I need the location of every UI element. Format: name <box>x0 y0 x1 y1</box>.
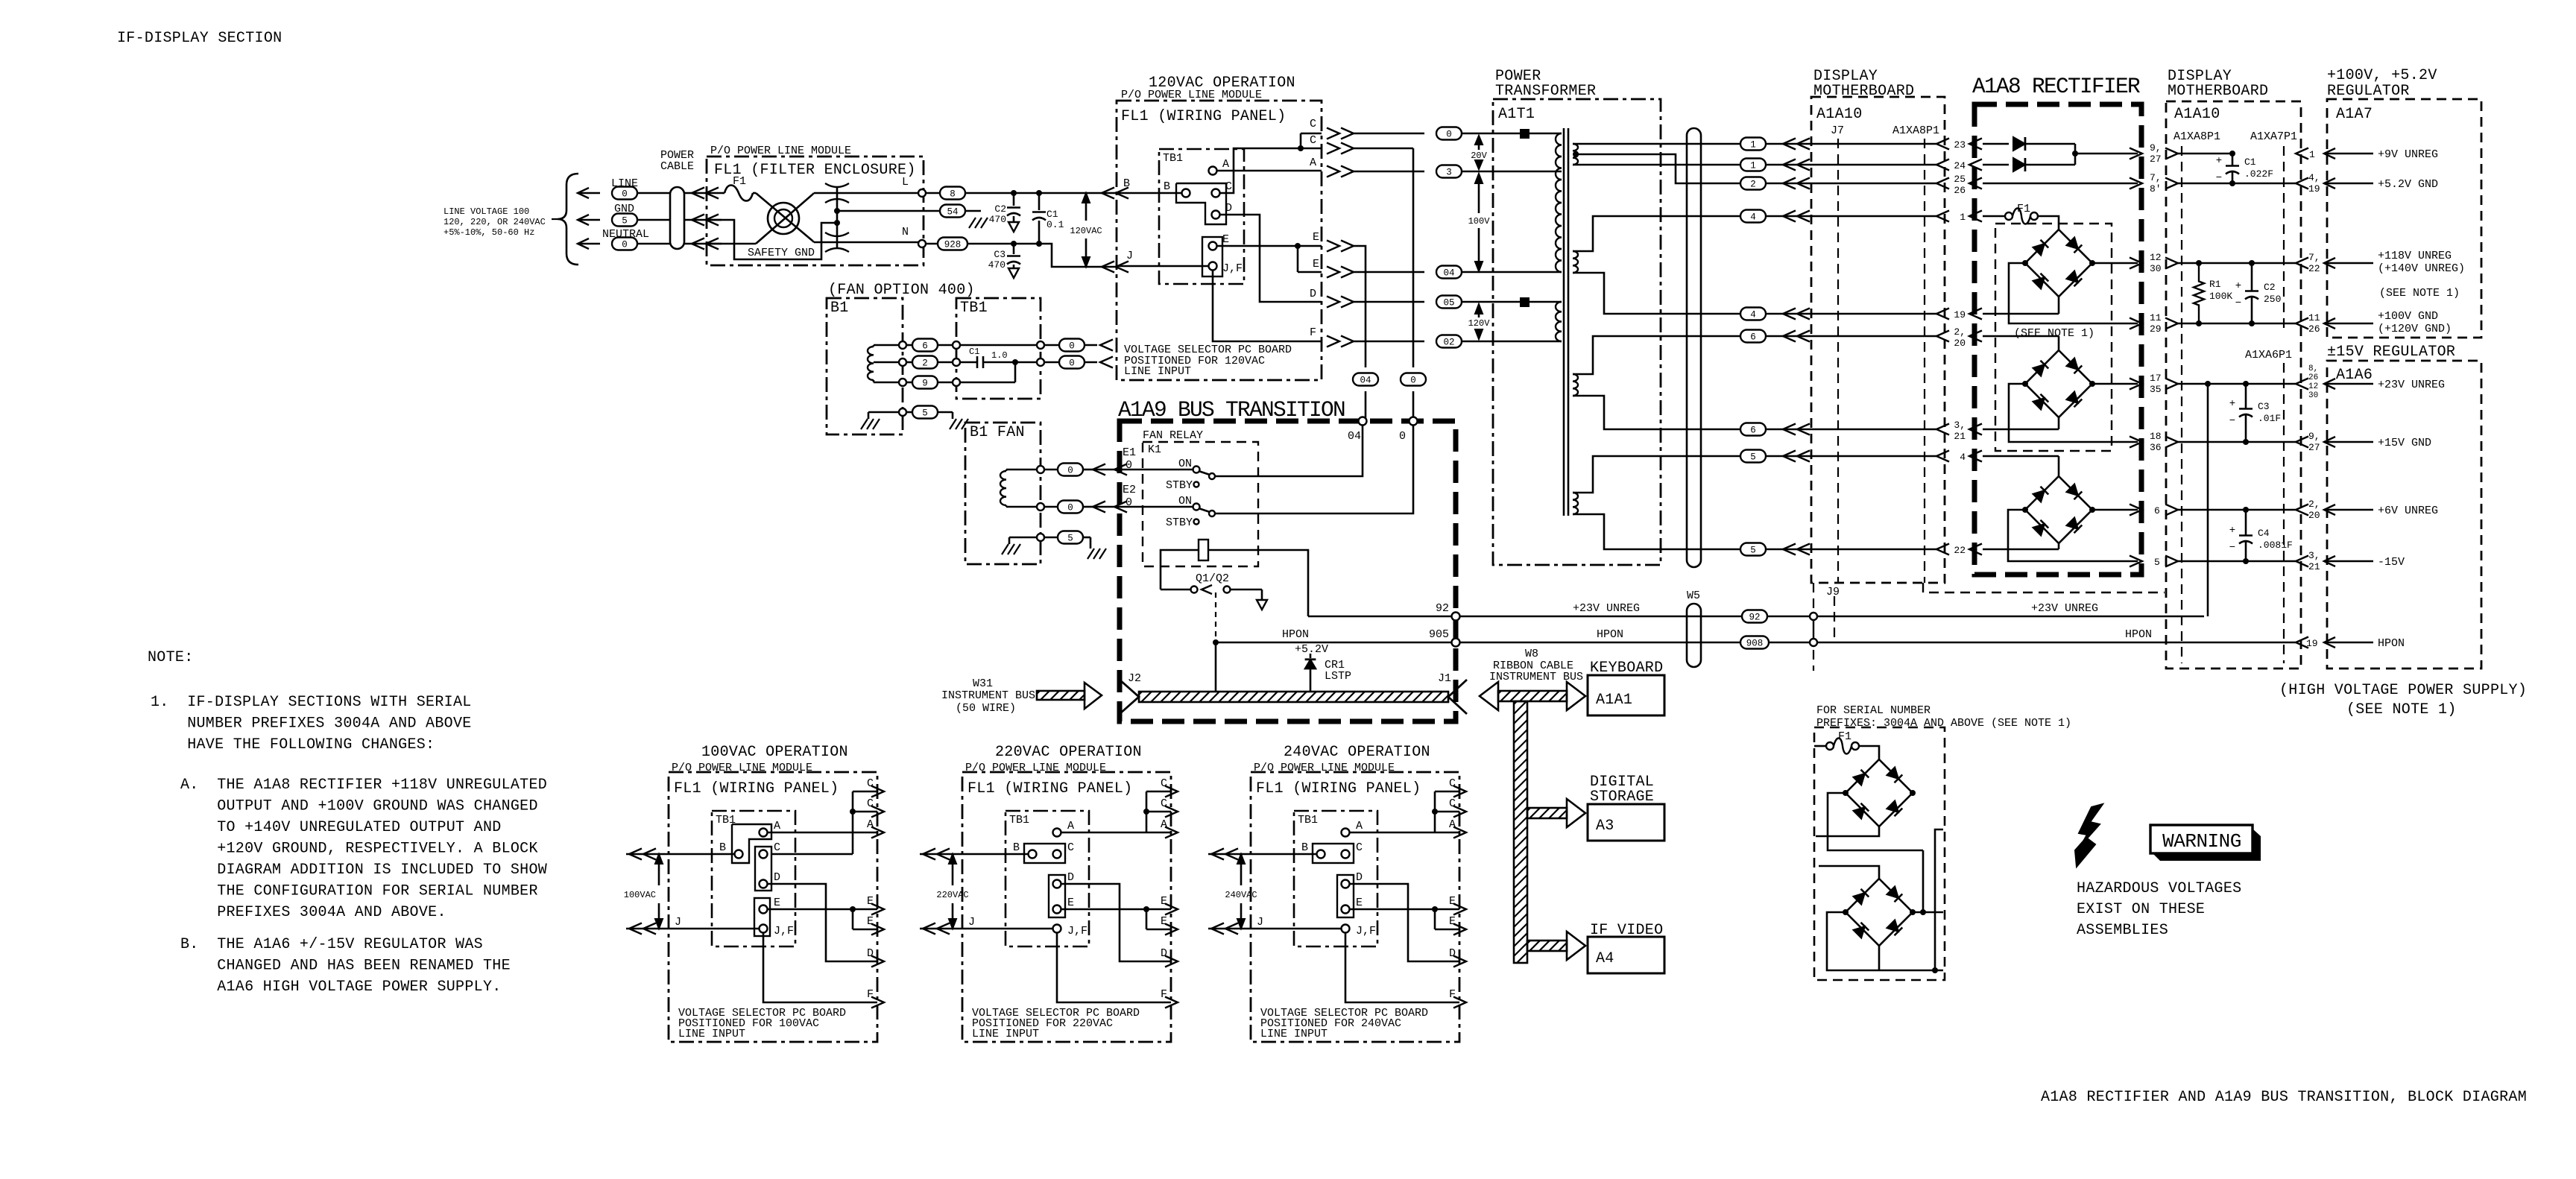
oval 8 <box>926 187 1117 200</box>
wire A-C junction 220 <box>1061 791 1149 832</box>
label P/O POWER LINE MODULE (filter) <box>710 145 851 157</box>
module A1A10 right box <box>2166 101 2301 668</box>
label see note 1 hv <box>2346 701 2457 718</box>
connector J7 line <box>1837 139 1839 583</box>
svg-text:+118V UNREG: +118V UNREG <box>2378 250 2452 262</box>
wire B 100 <box>626 849 735 860</box>
cable W5 <box>1687 128 1701 567</box>
svg-text:7,: 7, <box>2308 252 2320 263</box>
gnd b1fan left <box>1002 537 1020 554</box>
svg-text:5: 5 <box>622 216 628 227</box>
svg-text:R1: R1 <box>2209 279 2221 290</box>
svg-text:N: N <box>902 226 909 238</box>
svg-text:6: 6 <box>922 341 928 352</box>
jumper plate DE 240 <box>1337 875 1354 917</box>
label voltage selector 120 <box>1124 344 1292 378</box>
svg-text:0: 0 <box>1069 358 1075 369</box>
chassis gnd 54 <box>969 218 988 228</box>
wire 0 drop <box>1412 391 1415 421</box>
svg-text:E: E <box>1449 895 1456 908</box>
svg-text:+23V UNREG: +23V UNREG <box>1573 602 1640 615</box>
exit 11/29 <box>2130 312 2296 335</box>
svg-text:A: A <box>1356 820 1363 832</box>
wire 6 out <box>2092 509 2138 511</box>
wire C stub 120 <box>1298 133 1322 151</box>
exit C1 240 <box>1435 777 1466 797</box>
cap C1 .022F <box>2216 151 2273 186</box>
label A1A8 RECTIFIER <box>1972 74 2140 99</box>
wire F 220 <box>1057 933 1178 1008</box>
svg-text:ON: ON <box>1178 495 1192 508</box>
wire J 240 <box>1208 923 1342 935</box>
terminal JF 220 <box>1053 925 1088 938</box>
label K1 <box>1148 443 1161 456</box>
wire bridge1 left <box>2009 263 2138 323</box>
wire E 220 <box>1061 906 1149 929</box>
wire sec2 bot <box>1573 273 1740 314</box>
svg-text:ASSEMBLIES: ASSEMBLIES <box>2077 922 2168 939</box>
svg-text:FOR SERIAL NUMBER: FOR SERIAL NUMBER <box>1816 704 1931 717</box>
svg-text:J: J <box>675 916 681 929</box>
wire 23 in <box>1983 143 2009 145</box>
terminal N <box>902 226 926 247</box>
wire b1fan gnd <box>1009 534 1058 541</box>
svg-text:21: 21 <box>2308 561 2320 572</box>
svg-text:D: D <box>774 871 780 884</box>
svg-text:54: 54 <box>947 207 958 218</box>
res R1 100K <box>2194 260 2232 326</box>
module A1A6 box <box>2327 361 2481 668</box>
terminal JF 100 <box>760 925 795 938</box>
svg-text:INSTRUMENT BUS: INSTRUMENT BUS <box>941 689 1035 702</box>
svg-text:1: 1 <box>1750 161 1756 171</box>
wire sec3 top <box>1573 336 1740 374</box>
wire A-C junction 240 <box>1350 791 1438 832</box>
svg-text:J,F: J,F <box>1067 925 1087 938</box>
label A1A9 BUS TRANSITION <box>1118 397 1345 423</box>
svg-text:C: C <box>1449 797 1456 810</box>
dim 20V <box>1471 136 1487 169</box>
svg-text:+23V UNREG: +23V UNREG <box>2378 379 2445 391</box>
svg-text:(50 WIRE): (50 WIRE) <box>956 702 1016 715</box>
svg-text:HAVE THE FOLLOWING CHANGES:: HAVE THE FOLLOWING CHANGES: <box>151 736 435 753</box>
svg-text:23: 23 <box>1954 139 1966 151</box>
wire L diag <box>756 193 812 241</box>
label FL1 (WIRING PANEL) 240 <box>1256 780 1421 797</box>
svg-text:+5%-10%, 50-60 Hz: +5%-10%, 50-60 Hz <box>443 227 534 238</box>
exit 17/35 <box>2130 373 2296 395</box>
svg-text:18: 18 <box>2150 431 2162 442</box>
svg-text:470: 470 <box>988 259 1006 271</box>
svg-text:E: E <box>1313 231 1319 244</box>
svg-text:F: F <box>1161 988 1167 1001</box>
cap C3 .01F <box>2205 381 2281 445</box>
junction C3 <box>1011 241 1017 247</box>
svg-text:19: 19 <box>1954 309 1966 320</box>
wire E1 <box>1114 464 1127 475</box>
svg-text:Q1/Q2: Q1/Q2 <box>1196 572 1229 585</box>
wire +23V riser <box>2207 384 2209 616</box>
svg-text:LINE INPUT: LINE INPUT <box>1260 1028 1328 1040</box>
input +100V GND <box>2296 310 2452 335</box>
oval 0 b1fan1 <box>1058 464 1196 476</box>
exit 5 <box>2130 556 2296 569</box>
oval 6 row y451 <box>1740 330 1949 343</box>
label J9 <box>1826 586 1840 598</box>
svg-text:D: D <box>867 947 874 960</box>
svg-text:W8: W8 <box>1525 648 1538 660</box>
svg-text:E: E <box>1222 233 1229 246</box>
svg-text:B: B <box>1013 841 1020 854</box>
module TB1 220 box <box>1006 811 1089 946</box>
svg-text:22: 22 <box>1954 545 1966 556</box>
junction C2 <box>1011 190 1017 196</box>
module A1A8 box <box>1974 104 2141 575</box>
svg-text:4: 4 <box>1750 212 1756 223</box>
svg-text:19: 19 <box>2306 638 2318 649</box>
svg-text:2: 2 <box>1750 180 1756 190</box>
svg-text:C4: C4 <box>2258 528 2270 539</box>
wire 12/30 out <box>2092 262 2138 265</box>
label J2 <box>1128 672 1141 685</box>
exit 7/8 <box>2130 172 2296 195</box>
svg-text:11: 11 <box>2150 312 2162 323</box>
exit 12/30 <box>2130 252 2296 274</box>
svg-text:INSTRUMENT BUS: INSTRUMENT BUS <box>1489 671 1583 683</box>
input +15V GND <box>2296 431 2431 453</box>
svg-text:A1A1: A1A1 <box>1596 692 1632 709</box>
module TB1 240 box <box>1294 811 1377 946</box>
terminal A 100 <box>760 820 781 837</box>
oval 1 row y193 <box>1740 138 1949 151</box>
oval 5 row y737 <box>1740 543 1949 556</box>
connector line 2927 <box>2181 146 2182 663</box>
bridge rectifier serialA <box>1843 759 1916 826</box>
transistor Q1/Q2 switch <box>1161 585 1262 594</box>
wire ON1 to 04 <box>1215 421 1363 476</box>
svg-text:1.0: 1.0 <box>991 350 1008 361</box>
svg-text:D: D <box>1310 288 1316 300</box>
svg-text:+100V GND: +100V GND <box>2378 310 2438 323</box>
terminal E 220 <box>1053 897 1075 914</box>
svg-text:908: 908 <box>1746 639 1764 649</box>
label A1A6 <box>2336 367 2373 384</box>
svg-text:E: E <box>774 897 780 909</box>
svg-text:LINE INPUT: LINE INPUT <box>1124 365 1191 378</box>
svg-text:04: 04 <box>1443 268 1454 279</box>
xfmr sec 2 <box>1573 251 1578 273</box>
label P/O POWER LINE MODULE 220 <box>965 762 1106 774</box>
fuse F1 (filter) <box>722 175 756 201</box>
svg-text:C: C <box>774 841 780 854</box>
svg-text:E2: E2 <box>1123 484 1136 496</box>
exit A 240 <box>1435 818 1466 838</box>
terminal B 240 <box>1301 841 1325 859</box>
svg-text:4: 4 <box>1750 310 1756 320</box>
pin 1 left-A1A10 <box>1960 211 1982 224</box>
svg-text:6: 6 <box>2154 505 2160 516</box>
svg-text:E: E <box>1067 897 1074 909</box>
svg-text:100K: 100K <box>2209 291 2232 302</box>
svg-text:C3: C3 <box>2258 401 2270 412</box>
svg-text:K1: K1 <box>1148 443 1161 456</box>
svg-text:J1: J1 <box>1438 672 1451 685</box>
svg-text:LSTP: LSTP <box>1325 670 1351 683</box>
svg-text:J9: J9 <box>1826 586 1840 598</box>
exit F 120 <box>1310 326 1424 347</box>
svg-text:B. THE A1A6 +/-15V REGULATOR: B. THE A1A6 +/-15V REGULATOR WAS <box>180 936 483 953</box>
svg-text:TRANSFORMER: TRANSFORMER <box>1495 83 1596 100</box>
title IF-DISPLAY SECTION <box>117 30 282 47</box>
polarity square pri2 <box>1520 297 1529 307</box>
svg-text:J: J <box>1126 250 1133 262</box>
wire sec1 bot <box>1573 164 1740 166</box>
label A1XA8P1 left <box>1892 124 1939 137</box>
svg-text:21: 21 <box>1954 431 1966 442</box>
svg-text:THE CONFIGURATION FOR SERIAL N: THE CONFIGURATION FOR SERIAL NUMBER <box>180 883 538 900</box>
oval 0 drop <box>1401 373 1426 386</box>
svg-text:20: 20 <box>1954 338 1966 349</box>
svg-text:F: F <box>867 988 874 1001</box>
svg-text:3,: 3, <box>1954 420 1966 431</box>
module TB1 fan box <box>956 298 1041 399</box>
svg-text:FL1 (WIRING PANEL): FL1 (WIRING PANEL) <box>674 780 839 797</box>
label 220 OPERATION <box>995 744 1142 761</box>
svg-text:SAFETY GND: SAFETY GND <box>748 247 815 259</box>
wire N diag <box>756 195 812 244</box>
wire 24 in <box>1983 164 2009 166</box>
svg-text:+23V UNREG: +23V UNREG <box>2031 602 2098 615</box>
wire serial output <box>1932 829 1943 973</box>
module A1T1 box <box>1493 99 1661 565</box>
svg-text:C: C <box>1161 777 1167 790</box>
oval 928 <box>926 238 1039 250</box>
svg-text:MOTHERBOARD: MOTHERBOARD <box>2168 83 2268 100</box>
label FL1 (WIRING PANEL) 100 <box>674 780 839 797</box>
oval 0 fan1 <box>1044 339 1113 352</box>
svg-text:5: 5 <box>1750 452 1756 463</box>
svg-text:D: D <box>1356 871 1363 884</box>
terminal L <box>902 176 926 197</box>
label FL1 (WIRING PANEL) 120 <box>1121 108 1286 125</box>
svg-text:A: A <box>774 820 780 832</box>
svg-text:+120V GROUND, RESPECTIVELY. A: +120V GROUND, RESPECTIVELY. A BLOCK <box>180 841 538 858</box>
label J7 <box>1831 124 1844 137</box>
input +23V UNREG <box>2296 364 2445 400</box>
svg-text:C: C <box>867 777 874 790</box>
dim 240VAC <box>1225 854 1257 929</box>
svg-text:TO +140V UNREGULATED OUTPUT AN: TO +140V UNREGULATED OUTPUT AND <box>180 819 502 836</box>
svg-text:26: 26 <box>1954 185 1966 196</box>
terminal A 120 <box>1209 158 1322 175</box>
pin 24 left-A1A10 <box>1954 159 1982 172</box>
svg-text:02: 02 <box>1443 338 1454 348</box>
warning box <box>2150 825 2261 861</box>
wire N in <box>706 243 756 245</box>
wire F 120 <box>1213 271 1322 341</box>
label POWER TRANSFORMER <box>1495 68 1596 100</box>
wire C 120 <box>1220 148 1322 193</box>
label W8 <box>1489 648 1583 683</box>
svg-text:120, 220, OR 240VAC: 120, 220, OR 240VAC <box>443 217 546 227</box>
svg-text:92: 92 <box>1436 602 1449 615</box>
label TB1 fan <box>960 300 988 317</box>
svg-text:-15V: -15V <box>2378 556 2405 569</box>
svg-text:ON: ON <box>1178 458 1192 470</box>
wire 7/8 to A1A7 <box>2295 183 2297 185</box>
jumper plate CD 100 <box>755 847 771 891</box>
label voltage selector 100 <box>678 1007 846 1040</box>
module A1A7 box <box>2327 99 2481 338</box>
svg-text:HPON: HPON <box>1597 628 1623 641</box>
terminal B 120 <box>1182 189 1190 197</box>
svg-text:5: 5 <box>922 408 928 419</box>
svg-text:35: 35 <box>2150 384 2162 395</box>
svg-text:8': 8' <box>2150 183 2162 195</box>
exit E2 120 <box>1313 258 1424 278</box>
svg-text:220VAC OPERATION: 220VAC OPERATION <box>995 744 1142 761</box>
svg-text:P/O POWER LINE MODULE: P/O POWER LINE MODULE <box>710 145 851 157</box>
connector J9 line <box>1813 583 1834 671</box>
oval 0 b1fan2 <box>1058 501 1196 513</box>
label 240 OPERATION <box>1284 744 1430 761</box>
label DISPLAY MOTHERBOARD left <box>1813 68 1914 100</box>
svg-text:E: E <box>1356 897 1363 909</box>
power cable W-plug <box>660 149 694 249</box>
module TB1 120 box <box>1159 149 1244 284</box>
wire 17/35 out <box>2092 383 2138 385</box>
exit D 120 <box>1310 288 1424 308</box>
wire sec3 bot <box>1573 396 1740 429</box>
cap C1 1.0 fan <box>960 347 1044 368</box>
terminal C 240 <box>1342 841 1363 859</box>
node J9 92 <box>1810 613 1817 620</box>
module serial box <box>1814 727 1945 980</box>
exit 6 <box>2130 505 2296 517</box>
svg-text:30: 30 <box>2150 263 2162 274</box>
wire tb1 row9 <box>960 359 1018 382</box>
jumper plate EJF 100 <box>754 898 770 936</box>
svg-text:+: + <box>2229 525 2235 537</box>
exit C2 220 <box>1146 797 1178 818</box>
exit 9/27 <box>2130 142 2231 165</box>
svg-text:E: E <box>867 895 874 908</box>
dim 120VAC <box>1070 193 1102 267</box>
wire tb1 row6 <box>960 341 1044 349</box>
svg-text:NOTE:: NOTE: <box>148 649 194 666</box>
node GND <box>578 203 670 227</box>
label high voltage power supply <box>2279 682 2527 699</box>
svg-text:STBY: STBY <box>1166 479 1193 492</box>
wire coil left <box>1161 550 1199 589</box>
junction C1 bot <box>1036 241 1042 247</box>
xfmr sec 3 <box>1573 374 1578 396</box>
connector line A1XA6P1 <box>2283 363 2285 663</box>
wire C2 to bus <box>1412 148 1415 367</box>
diode CR 23 <box>2013 137 2075 151</box>
svg-text:+5.2V GND: +5.2V GND <box>2378 178 2438 191</box>
earth gnd C2 <box>1008 222 1019 232</box>
svg-text:LINE VOLTAGE 100: LINE VOLTAGE 100 <box>443 206 529 217</box>
gate line CR1 <box>1213 592 1219 692</box>
wire bridge3 left <box>2008 510 2138 561</box>
node 92 <box>1452 613 1460 621</box>
svg-text:TB1: TB1 <box>1009 814 1029 826</box>
fuse F1 serial <box>1814 730 1879 759</box>
svg-text:C2: C2 <box>2264 282 2276 293</box>
label 100 OPERATION <box>701 744 848 761</box>
label B1 <box>830 300 849 317</box>
wire 22 in <box>1983 543 2059 549</box>
svg-text:470: 470 <box>989 214 1006 225</box>
oval 1 row y221 <box>1740 159 1949 171</box>
diode CR 24 <box>2013 158 2075 171</box>
svg-text:A: A <box>1161 818 1167 831</box>
svg-text:−: − <box>2235 297 2241 309</box>
wire 3/21 in <box>1983 417 2059 429</box>
svg-text:A1XA8P1: A1XA8P1 <box>1892 124 1939 137</box>
wire L out <box>812 193 922 195</box>
module B1 FAN box <box>965 423 1041 564</box>
svg-text:A: A <box>1222 158 1229 171</box>
svg-text:3,: 3, <box>2308 550 2320 561</box>
svg-text:8: 8 <box>950 189 956 200</box>
module FL1 wiring panel 120 box <box>1117 101 1322 380</box>
pin 19 left-A1A10 <box>1954 309 1982 321</box>
contact STBY2 <box>1166 516 1199 529</box>
label +100V +5.2V REGULATOR <box>2327 67 2437 100</box>
wire ON2 to 0 <box>1215 421 1413 513</box>
svg-text:5: 5 <box>2154 557 2160 568</box>
wire E2 <box>1114 502 1127 513</box>
label TB1 220 <box>1009 814 1029 826</box>
oval 92 rail <box>1742 610 1767 623</box>
oval 04 drop <box>1353 373 1378 386</box>
bus W8 arrow <box>1480 682 1585 710</box>
exit C1 120 <box>1310 118 1424 139</box>
node E1 <box>1123 446 1136 472</box>
svg-text:DIAGRAM ADDITION IS INCLUDED T: DIAGRAM ADDITION IS INCLUDED TO SHOW <box>180 862 547 879</box>
terminal C 100 <box>760 841 781 859</box>
svg-text:220VAC: 220VAC <box>936 890 968 900</box>
svg-text:HPON: HPON <box>2125 628 2152 641</box>
bridge rectifier CR9-12 <box>2022 476 2095 543</box>
switch K1-1 <box>1178 458 1215 479</box>
svg-text:FL1 (WIRING PANEL): FL1 (WIRING PANEL) <box>1121 108 1286 125</box>
line filter choke <box>768 203 799 234</box>
svg-text:C2: C2 <box>994 203 1006 215</box>
svg-text:29: 29 <box>2150 323 2162 335</box>
label FL1 (WIRING PANEL) 220 <box>967 780 1132 797</box>
svg-text:E: E <box>1313 258 1319 271</box>
jumper plate BCD 120 <box>1176 183 1226 224</box>
svg-text:B: B <box>719 841 726 854</box>
svg-text:6: 6 <box>1750 332 1756 343</box>
label A1A10 left <box>1816 106 1863 123</box>
wire N to J <box>1039 244 1093 267</box>
svg-text:A1XA7P1: A1XA7P1 <box>2250 130 2297 143</box>
svg-text:A1A7: A1A7 <box>2336 106 2373 123</box>
svg-text:HAZARDOUS VOLTAGES: HAZARDOUS VOLTAGES <box>2077 880 2241 897</box>
wire A-C junction 100 <box>768 791 856 854</box>
svg-text:A1XA8P1: A1XA8P1 <box>2173 130 2220 143</box>
label line voltage <box>443 206 546 238</box>
exit E2 240 <box>1435 915 1466 935</box>
svg-text:27: 27 <box>2308 442 2320 453</box>
svg-text:0: 0 <box>622 189 628 200</box>
oval 908 rail <box>1740 636 1769 649</box>
bus W31 arrow <box>1031 683 1102 709</box>
